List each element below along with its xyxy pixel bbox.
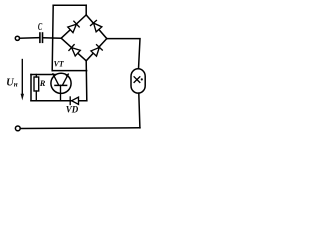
terminal X1 (AC input, top-left) [15,36,19,40]
svg-text:VD: VD [66,104,79,114]
svg-text:R: R [39,78,46,88]
svg-text:н: н [14,81,18,89]
bridge diode (top-left arm, points to top corner) [68,21,79,32]
wire control loop top [31,74,55,76]
transistor VT emitter lead with arrow [63,74,69,85]
wire left vertical (top wire down to collector) [52,5,53,70]
bridge side bottom-right [86,39,107,61]
transistor VT base bar [55,84,67,86]
capacitor C [40,33,43,42]
wire lamp bottom down [139,93,140,128]
bridge diode (top-right arm, points to top corner) [91,20,102,31]
diode VD (on lower control rail, points left) [70,97,78,105]
wire top horizontal [53,4,86,6]
transistor VT circle [51,73,71,93]
wire bottom horizontal [20,127,139,130]
voltage arrow Un [21,60,23,96]
bridge side bottom-left [61,38,86,61]
wire bridge top stem [85,5,87,15]
bridge side top-right [86,15,107,39]
resistor R [34,75,39,101]
transistor VT collector lead [53,74,59,85]
bridge diode (bottom-left arm, points to left corner) [69,45,80,56]
wire capacitor to bridge left corner [43,37,61,39]
terminal X2 (AC input, bottom-left) [15,126,20,131]
wire terminal X1 to capacitor [20,37,40,40]
wire bridge right corner to lamp branch [107,39,140,69]
svg-text:VT: VT [54,59,65,68]
bridge diode (bottom-right arm, points to right corner) [91,45,102,56]
wire bridge bottom corner down to lower rail [85,61,88,101]
lamp HL (stadium with x and dot) [131,69,145,93]
wire control loop left vertical [30,75,32,101]
wire control loop bottom [31,100,87,102]
svg-text:C: C [38,20,42,32]
transistor VT base stem down [60,85,62,100]
wire emitter/collector horizontal run [52,70,86,72]
rectifier bridge diamond: side top-left [61,15,86,38]
